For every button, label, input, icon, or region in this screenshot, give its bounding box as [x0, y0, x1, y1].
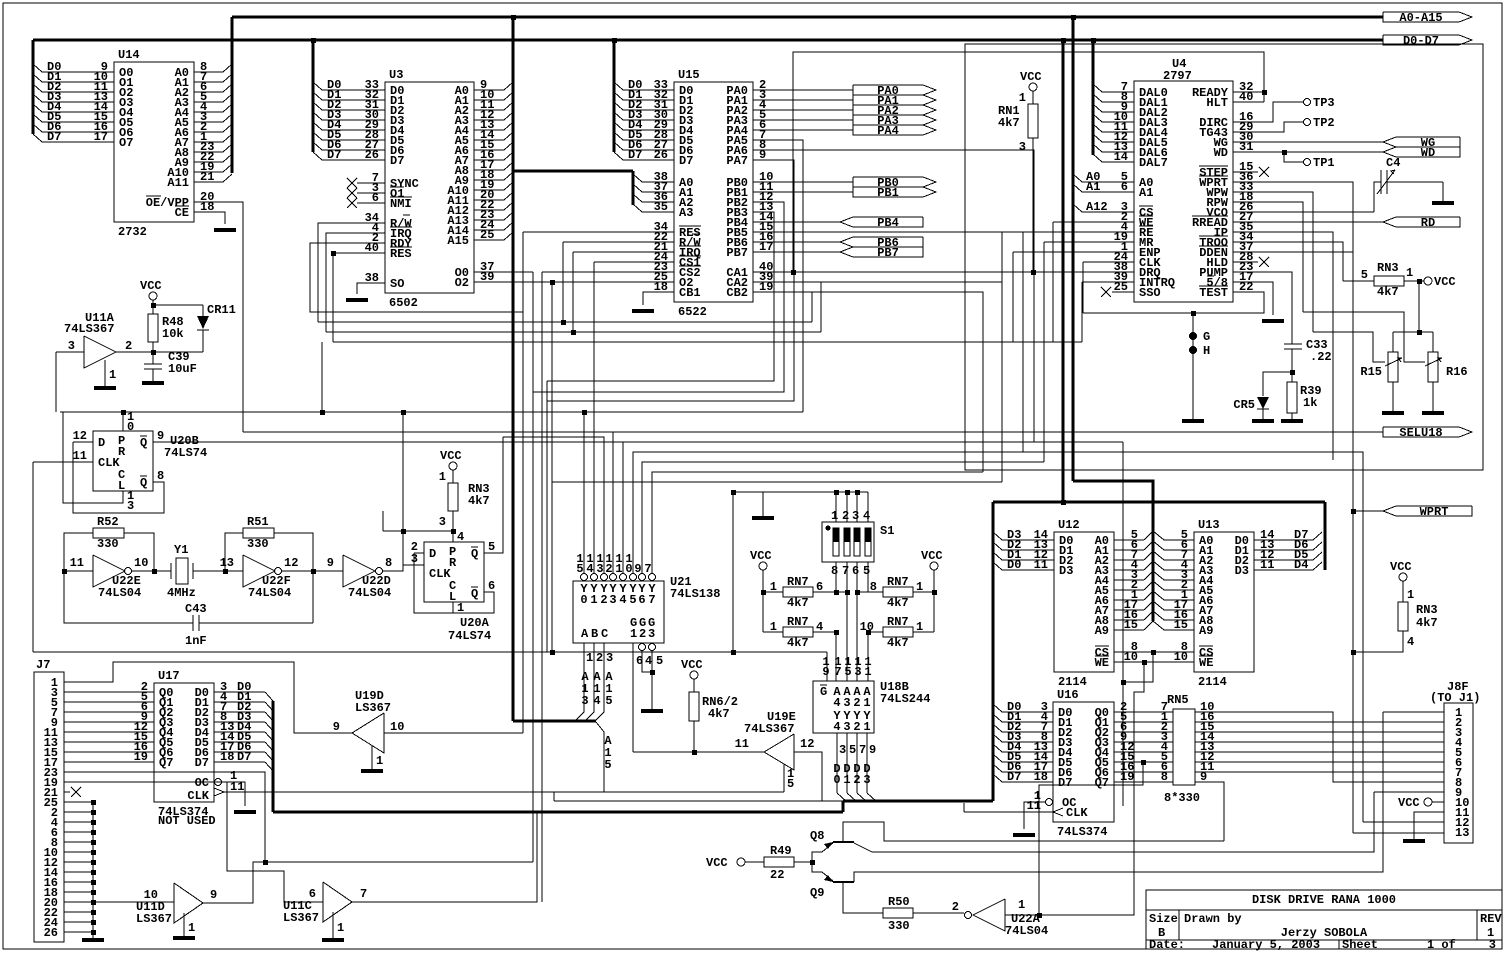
- svg-text:5: 5: [488, 540, 495, 554]
- svg-text:11: 11: [73, 449, 87, 463]
- latch U16 74LS374: [1053, 702, 1114, 822]
- svg-text:2: 2: [596, 651, 603, 665]
- svg-text:4k7: 4k7: [1377, 285, 1399, 299]
- bus vertical U3 data: [312, 40, 315, 152]
- VIA U15 6522: [674, 82, 753, 302]
- U12 pin A3 wire: [1114, 569, 1144, 571]
- J8F pin 9 wire: [1374, 791, 1444, 793]
- U3 pin D0: [322, 89, 385, 91]
- RN5 row 6: [1114, 771, 1173, 773]
- svg-text:Size: Size: [1149, 912, 1178, 926]
- svg-text:CLK: CLK: [187, 789, 209, 803]
- svg-text:3: 3: [606, 651, 613, 665]
- U14 CE wire: [194, 212, 225, 224]
- U12 pin A0 wire: [1114, 539, 1144, 541]
- svg-text:2114: 2114: [1058, 675, 1087, 689]
- inverter U22E: [93, 555, 125, 587]
- U3 pin D4: [322, 129, 385, 131]
- U21 output Y2 bubble: [601, 574, 608, 581]
- U4 WE wire: [1053, 221, 1134, 223]
- wire v1053 WE: [1052, 222, 1054, 342]
- svg-text:WE: WE: [1095, 656, 1109, 670]
- U3 nc pin: [357, 202, 385, 204]
- U17 pin D0 wire: [214, 691, 265, 693]
- svg-text:RN7: RN7: [887, 575, 909, 589]
- svg-text:3: 3: [581, 694, 588, 708]
- RN5 out row 2: [1195, 731, 1444, 733]
- svg-text:6: 6: [488, 579, 495, 593]
- U19E output wire: [794, 752, 822, 801]
- U15 pin D7: [623, 159, 674, 161]
- U11C output: [352, 812, 537, 902]
- svg-text:4MHz: 4MHz: [167, 586, 196, 600]
- U20B CLR pin 13: [63, 412, 123, 503]
- bus vertical U17 data: [272, 701, 275, 812]
- wire v1013 ENP: [1012, 252, 1014, 342]
- U3 pin D3: [322, 119, 385, 121]
- svg-text:2797: 2797: [1163, 69, 1192, 83]
- svg-text:1: 1: [586, 651, 593, 665]
- svg-text:2732: 2732: [118, 225, 147, 239]
- svg-text:5: 5: [844, 665, 851, 679]
- resistor R49 22: [737, 858, 745, 866]
- svg-text:Q: Q: [471, 587, 478, 601]
- U15 PA2 wire: [753, 109, 853, 111]
- bus vertical D right: [1062, 40, 1065, 502]
- svg-text:26: 26: [654, 148, 668, 162]
- RN5 row 0: [1114, 711, 1173, 713]
- svg-text:13: 13: [220, 556, 234, 570]
- U4 5/8 wire: [1233, 282, 1273, 315]
- svg-text:1: 1: [615, 562, 622, 576]
- ground S1: [752, 516, 774, 520]
- svg-text:7: 7: [644, 562, 651, 576]
- svg-text:RES: RES: [390, 247, 412, 261]
- U3 pin D2: [322, 109, 385, 111]
- svg-text:Q9: Q9: [810, 886, 824, 900]
- svg-text:WD: WD: [1214, 146, 1228, 160]
- U21 Y1 riser CS1: [593, 262, 595, 573]
- resistor network RN5 8*330: [1173, 709, 1195, 785]
- bus vertical U14 data: [32, 40, 35, 134]
- svg-text:11: 11: [1034, 558, 1048, 572]
- svg-text:5: 5: [656, 654, 663, 668]
- U12 pin A4 wire: [1114, 579, 1144, 581]
- svg-text:C: C: [601, 627, 608, 641]
- wire v573 IRQ: [572, 252, 574, 332]
- tag PA3: [853, 115, 936, 125]
- svg-text:4k7: 4k7: [1416, 616, 1438, 630]
- svg-text:CB1: CB1: [679, 286, 701, 300]
- svg-text:10uF: 10uF: [168, 362, 197, 376]
- U15 pin D3: [623, 119, 674, 121]
- U15 CA1 DRQ wire: [753, 271, 1134, 273]
- U3 pin A10 wire: [474, 189, 504, 191]
- U13 pin D0: [1254, 539, 1313, 541]
- U3 RES wire: [333, 253, 385, 342]
- U12 pin D1: [1002, 559, 1054, 561]
- svg-text:2: 2: [853, 720, 860, 734]
- svg-text:D4: D4: [1294, 558, 1308, 572]
- U15 R/W wire: [563, 241, 674, 243]
- svg-text:2: 2: [842, 509, 849, 523]
- svg-text:10k: 10k: [162, 327, 184, 341]
- svg-text:R52: R52: [97, 515, 119, 529]
- U11A pin1 ground: [104, 360, 106, 386]
- U3 R/W overline: [403, 214, 410, 216]
- U15 PA7 wire: [547, 160, 794, 401]
- svg-text:9: 9: [333, 720, 340, 734]
- U3 pin A9 wire: [474, 179, 504, 181]
- svg-text:HLT: HLT: [1206, 96, 1228, 110]
- ground U3 SO: [346, 298, 368, 302]
- svg-text:TP2: TP2: [1313, 116, 1335, 130]
- tag WD: [1383, 147, 1460, 157]
- U21 Y4 riser: [622, 442, 624, 573]
- U11A output wire: [116, 351, 203, 353]
- U3 RDY wire: [310, 243, 523, 312]
- inverter U22F: [243, 555, 275, 587]
- U15 pin A2: [642, 201, 674, 203]
- svg-text:1: 1: [1406, 266, 1413, 280]
- U4 RE wire: [1002, 231, 1134, 233]
- data bus D0-D7 top: [33, 39, 1383, 42]
- U3 pin A15 wire: [474, 239, 504, 241]
- resistor RN3 4k7 preset pullup: [449, 462, 457, 470]
- wire v533 O0: [532, 272, 534, 862]
- R15 wiper: [1313, 332, 1385, 362]
- RN3 pullup WPRT: [1399, 573, 1407, 581]
- U12 pin D2: [1002, 549, 1054, 551]
- U4 pin DAL5: [1102, 141, 1134, 143]
- junction Q5 sense: [1141, 760, 1146, 765]
- U4 pin A1: [1082, 191, 1134, 193]
- svg-text:4: 4: [619, 593, 626, 607]
- svg-text:VCC: VCC: [440, 449, 462, 463]
- svg-text:Q7: Q7: [159, 756, 173, 770]
- tag PA0: [853, 85, 936, 95]
- svg-text:8: 8: [385, 556, 392, 570]
- svg-text:2: 2: [853, 696, 860, 710]
- svg-text:U15: U15: [678, 68, 700, 82]
- ground below U4: [1182, 419, 1204, 423]
- U14 pin A3 wire: [194, 101, 223, 103]
- svg-text:4k7: 4k7: [787, 636, 809, 650]
- U3 pin A0 wire: [474, 89, 504, 91]
- U15 pin D5: [623, 139, 674, 141]
- tag PB6: [840, 237, 923, 247]
- J8F pin 10 VCC: [1432, 801, 1444, 803]
- ground 5/8: [1262, 319, 1284, 323]
- svg-text:D3: D3: [1235, 564, 1249, 578]
- U15 R/W overline: [692, 233, 699, 235]
- U20B Q pin 9: [153, 441, 1123, 443]
- ground CR5: [1252, 419, 1274, 423]
- svg-text:1: 1: [109, 368, 116, 382]
- U4 pin DAL7: [1102, 161, 1134, 163]
- svg-text:74LS04: 74LS04: [1005, 924, 1048, 938]
- U16 pin D1: [1002, 721, 1053, 723]
- ground net G H: [1192, 313, 1194, 419]
- tag PB7: [840, 247, 923, 257]
- U3 pin D7: [322, 159, 385, 161]
- U4 STEP nc: [1233, 171, 1258, 173]
- U4 WPRT wire: [1233, 182, 1353, 833]
- svg-text:VCC: VCC: [140, 279, 162, 293]
- svg-text:5: 5: [605, 694, 612, 708]
- svg-text:DISK DRIVE RANA 1000: DISK DRIVE RANA 1000: [1252, 893, 1396, 907]
- U21 Y0 riser: [583, 412, 585, 573]
- svg-text:Q: Q: [140, 436, 147, 450]
- svg-text:OC: OC: [195, 776, 209, 790]
- U18B outputs to bus: [836, 733, 838, 793]
- svg-text:22: 22: [770, 868, 784, 882]
- U3 pin A7 wire: [474, 159, 504, 161]
- U3 pin A5 wire: [474, 139, 504, 141]
- svg-text:26: 26: [365, 148, 379, 162]
- enable rail: [33, 651, 827, 653]
- svg-text:4: 4: [586, 562, 593, 576]
- svg-text:U3: U3: [389, 68, 403, 82]
- TP1 branch: [1284, 152, 1303, 162]
- U3 R/W wire: [318, 223, 385, 322]
- U3 pin A13 wire: [474, 219, 504, 221]
- SRAM U13 2114: [1194, 532, 1254, 672]
- preset link: [383, 530, 453, 532]
- svg-text:A1: A1: [1139, 186, 1153, 200]
- svg-text:A12: A12: [1086, 200, 1108, 214]
- ground R39: [1281, 419, 1303, 423]
- svg-text:C4: C4: [1386, 156, 1400, 170]
- svg-text:2: 2: [125, 339, 132, 353]
- svg-text:9: 9: [157, 429, 164, 443]
- U14 pin A5 wire: [194, 121, 223, 123]
- resistor RN7 b: [783, 627, 813, 637]
- U11D pin1 ground: [183, 913, 185, 936]
- Q8 emitter to J8F9: [854, 843, 872, 852]
- U21 Y2 riser: [503, 437, 604, 573]
- svg-text:CB2: CB2: [726, 286, 748, 300]
- U21 output Y3 bubble: [610, 574, 617, 581]
- ground U14 CE: [214, 228, 236, 232]
- Q8 collector to RN5: [843, 822, 1224, 842]
- svg-text:35: 35: [654, 200, 668, 214]
- svg-text:3: 3: [852, 509, 859, 523]
- svg-text:R16: R16: [1446, 365, 1468, 379]
- svg-text:A3: A3: [679, 206, 693, 220]
- resistor R39 1k: [1287, 382, 1297, 413]
- svg-text:SELU18: SELU18: [1399, 426, 1442, 440]
- U13 pin A9 wire: [1164, 629, 1194, 631]
- svg-text:1: 1: [188, 921, 195, 935]
- svg-text:4k7: 4k7: [998, 116, 1020, 130]
- svg-text:R51: R51: [247, 515, 269, 529]
- svg-text:Sheet: Sheet: [1342, 938, 1378, 952]
- U21 Y7 riser: [652, 472, 983, 573]
- bus junction x313: [311, 38, 316, 43]
- U19D output wire: [384, 732, 523, 734]
- svg-text:LS367: LS367: [355, 701, 391, 715]
- svg-text:7: 7: [834, 665, 841, 679]
- RN1 wire down: [1032, 138, 1034, 272]
- U15 CB1 wire: [643, 292, 674, 305]
- U21 output Y1 bubble: [591, 574, 598, 581]
- svg-text:1: 1: [630, 627, 637, 641]
- svg-text:1: 1: [1018, 898, 1025, 912]
- EPROM U14 2732: [114, 62, 194, 222]
- bus horizontal D RAM: [993, 501, 1325, 504]
- svg-text:3: 3: [843, 696, 850, 710]
- svg-text:2: 2: [600, 593, 607, 607]
- RN5 out row 5: [1195, 761, 1444, 763]
- wire v1044 MR: [1043, 242, 1045, 462]
- svg-text:Date:: Date:: [1149, 938, 1185, 952]
- U17 pin D5 wire: [214, 741, 265, 743]
- U16 CLK pin 11: [1053, 808, 1063, 816]
- U16 pin D5: [1002, 761, 1053, 763]
- RN5 row 1: [1114, 721, 1173, 723]
- U4 pin DAL4: [1102, 131, 1134, 133]
- svg-text:D0-D7: D0-D7: [1403, 34, 1439, 48]
- bus tag A0-A15: [1383, 12, 1472, 22]
- diode CR5: [1263, 372, 1292, 396]
- svg-text:74LS04: 74LS04: [98, 586, 141, 600]
- resistor RN1 4k7: [1029, 83, 1037, 91]
- RN5 row 2: [1114, 731, 1173, 733]
- resistor R48 10k: [148, 314, 158, 342]
- U3 nc pin: [357, 192, 385, 194]
- ground J7: [82, 938, 104, 942]
- wire h482: [552, 481, 1002, 483]
- bus horizontal A bottom: [513, 720, 596, 723]
- U3 pin D5: [322, 139, 385, 141]
- svg-text:Q: Q: [140, 476, 147, 490]
- svg-text:1 of: 1 of: [1427, 938, 1456, 952]
- bus junction x614: [612, 38, 617, 43]
- U3 pin A11 wire: [474, 199, 504, 201]
- svg-text:1: 1: [1407, 588, 1414, 602]
- U3 pin D6: [322, 149, 385, 151]
- U15 pin D1: [623, 99, 674, 101]
- U20A PRE pin 4: [452, 531, 454, 542]
- svg-text:7: 7: [360, 887, 367, 901]
- bus horizontal D bottom right: [843, 800, 993, 803]
- svg-text:74LS367: 74LS367: [744, 722, 794, 736]
- wire v547: [546, 381, 548, 652]
- connector J8F: [1444, 703, 1473, 843]
- U16 pin D2: [1002, 731, 1053, 733]
- J7 pin 19 wire: [64, 782, 323, 902]
- svg-text:74LS374: 74LS374: [1057, 825, 1107, 839]
- svg-text:74LS367: 74LS367: [64, 322, 114, 336]
- U14 pin A7 wire: [194, 141, 223, 143]
- svg-text:74LS74: 74LS74: [448, 629, 491, 643]
- U12 pin A6 wire: [1114, 599, 1144, 601]
- U13 pin D1: [1254, 549, 1313, 551]
- U14 pin A4 wire: [194, 111, 223, 113]
- U3 pin A2 wire: [474, 109, 504, 111]
- svg-text:PA7: PA7: [726, 154, 748, 168]
- U4 WPW wire: [1233, 192, 1313, 332]
- svg-text:6522: 6522: [678, 305, 707, 319]
- U14 pin A8 wire: [194, 151, 223, 153]
- svg-text:NOT USED: NOT USED: [158, 814, 216, 828]
- U20B Qbar pin 8: [73, 442, 164, 513]
- bus vertical A right: [1072, 17, 1075, 481]
- U15 PB6 wire: [753, 241, 840, 243]
- svg-text:R49: R49: [770, 844, 792, 858]
- U22E input wire: [64, 570, 93, 572]
- svg-text:S1: S1: [880, 524, 894, 538]
- Q9 collector to J8F1: [854, 712, 1383, 882]
- svg-text:1: 1: [831, 509, 838, 523]
- svg-text:4: 4: [1407, 635, 1414, 649]
- svg-text:6: 6: [1121, 180, 1128, 194]
- U12 pin D3: [1002, 539, 1054, 541]
- svg-text:Q7: Q7: [1095, 776, 1109, 790]
- svg-text:1nF: 1nF: [185, 634, 207, 648]
- svg-text:U13: U13: [1198, 518, 1220, 532]
- svg-text:RN7: RN7: [787, 615, 809, 629]
- svg-text:11: 11: [70, 556, 84, 570]
- wire v812: [811, 292, 813, 322]
- U12 U13 CS WE link: [1114, 651, 1194, 653]
- U12 pin A9 wire: [1114, 629, 1144, 631]
- svg-text:330: 330: [247, 537, 269, 551]
- svg-text:Q: Q: [471, 547, 478, 561]
- U12 pin A1 wire: [1114, 549, 1144, 551]
- U4 pin DAL3: [1102, 121, 1134, 123]
- svg-text:1: 1: [457, 601, 464, 615]
- svg-text:VCC: VCC: [1398, 796, 1420, 810]
- U19E input wire: [633, 751, 764, 753]
- svg-text:9: 9: [210, 888, 217, 902]
- svg-text:NMI: NMI: [390, 197, 412, 211]
- U20B PRE pin 10: [122, 412, 124, 431]
- U14 pin A6 wire: [194, 131, 223, 133]
- svg-text:2: 2: [605, 562, 612, 576]
- svg-text:RN7: RN7: [887, 615, 909, 629]
- U15 CS1 wire: [594, 261, 674, 263]
- U21 output Y7 bubble: [649, 574, 656, 581]
- J8F pin 11 ground: [1414, 812, 1444, 839]
- svg-text:0: 0: [580, 593, 587, 607]
- svg-text:7: 7: [648, 593, 655, 607]
- U15 PB7 wire: [753, 251, 840, 253]
- svg-text:VCC: VCC: [921, 549, 943, 563]
- latch U17 74LS374 not used: [154, 683, 214, 802]
- svg-text:2: 2: [853, 773, 860, 787]
- U14 pin A2 wire: [194, 91, 223, 93]
- U15 pin D4: [623, 129, 674, 131]
- U17 pin D2 wire: [214, 711, 265, 713]
- U14 OE wire: [194, 202, 243, 432]
- U4 WD wire: [1233, 151, 1383, 153]
- svg-text:L: L: [118, 479, 125, 493]
- resistor RN3 4k7 top right: [1374, 276, 1404, 286]
- svg-text:3: 3: [863, 773, 870, 787]
- tag WG: [1383, 137, 1460, 147]
- U22F out wire: [282, 570, 343, 572]
- U3 O2 wire: [474, 281, 674, 283]
- U4 DDEN wire: [1233, 251, 1353, 253]
- pots top rail: [1393, 331, 1433, 333]
- RN5 out 9 wire: [1195, 782, 1224, 841]
- U4 RPW wire: [1233, 202, 1303, 312]
- svg-text:(TO J1): (TO J1): [1430, 691, 1480, 705]
- resistor R50 330: [883, 908, 913, 918]
- svg-text:4: 4: [593, 694, 600, 708]
